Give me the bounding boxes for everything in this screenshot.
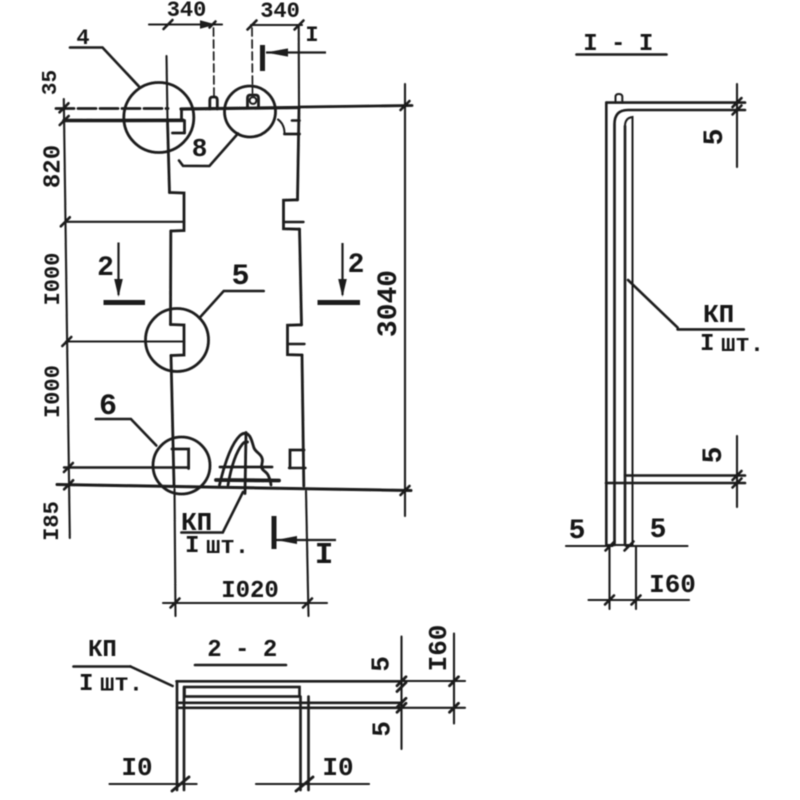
svg-text:35: 35 [40,70,63,95]
svg-text:КП: КП [88,637,117,664]
svg-text:шт.: шт. [721,332,764,359]
svg-text:340: 340 [167,0,207,23]
svg-text:I - I: I - I [583,31,653,58]
svg-text:I: I [185,533,199,560]
svg-text:2: 2 [348,250,365,281]
svg-text:КП: КП [703,300,734,330]
svg-text:6: 6 [99,390,117,424]
svg-text:2: 2 [97,253,114,284]
svg-text:2 - 2: 2 - 2 [207,637,277,664]
svg-text:I0: I0 [322,753,353,783]
svg-text:4: 4 [76,26,89,51]
svg-text:5: 5 [699,447,730,464]
svg-text:I: I [700,331,714,358]
svg-text:I000: I000 [41,253,66,306]
svg-text:5: 5 [700,129,731,146]
svg-text:I: I [79,671,93,698]
svg-text:I60: I60 [649,570,696,600]
svg-text:I85: I85 [40,501,65,541]
svg-text:5: 5 [650,515,667,546]
svg-text:шт.: шт. [100,672,143,699]
svg-text:340: 340 [260,0,300,24]
svg-text:3040: 3040 [374,270,405,337]
svg-text:5: 5 [368,721,398,737]
svg-text:I60: I60 [424,625,454,672]
svg-text:5: 5 [569,516,586,547]
svg-text:I020: I020 [221,578,279,605]
svg-text:шт.: шт. [206,534,249,561]
svg-text:I000: I000 [41,365,66,418]
svg-text:I0: I0 [121,753,152,783]
svg-text:5: 5 [231,260,249,294]
svg-text:I: I [315,538,334,573]
svg-text:8: 8 [192,134,208,164]
svg-text:5: 5 [367,656,397,672]
svg-text:I: I [305,23,318,48]
svg-text:820: 820 [41,145,68,188]
